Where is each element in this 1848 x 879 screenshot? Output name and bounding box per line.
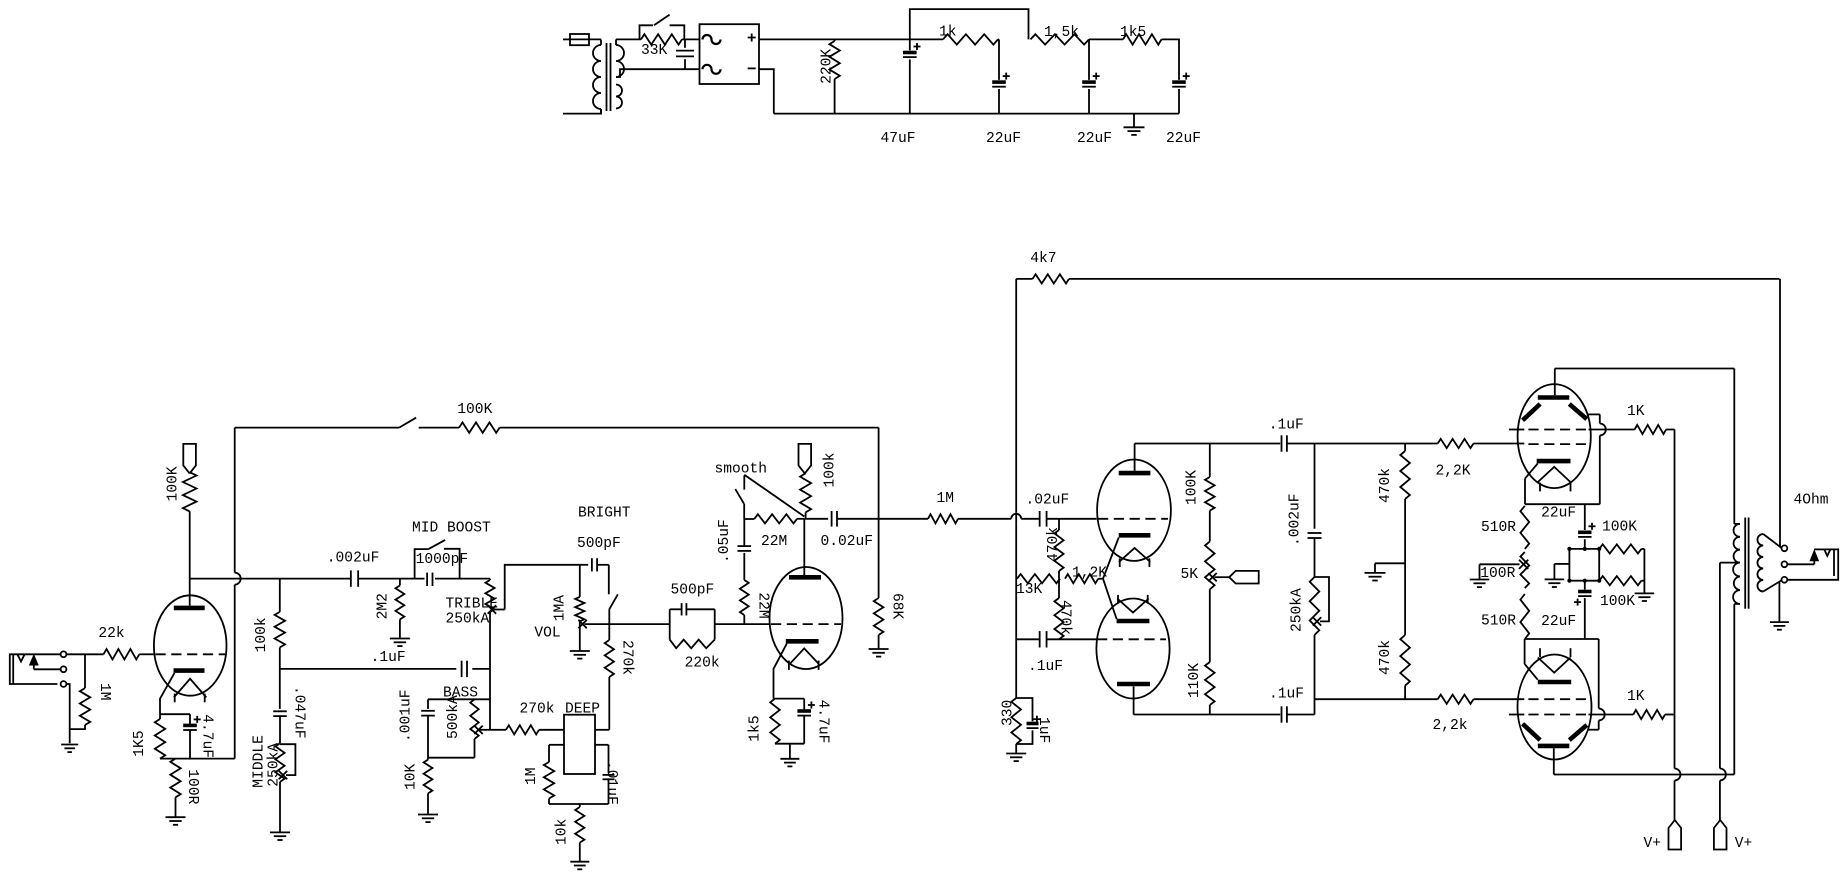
- svg-text:100K: 100K: [1185, 470, 1201, 505]
- pentode V3 heater: [1538, 467, 1571, 492]
- pentode V3 control grid: [1528, 443, 1588, 445]
- wire lower grid line: [1315, 698, 1438, 700]
- svg-text:V+: V+: [1644, 836, 1662, 852]
- svg-text:BRIGHT: BRIGHT: [578, 506, 631, 522]
- potentiometer 250kA presence: [1310, 577, 1320, 699]
- resistor 470k bias upper: [1400, 444, 1410, 564]
- wire bias ground tap: [1375, 563, 1405, 572]
- wire V3 beam plates tie: [1588, 414, 1606, 504]
- svg-text:1k5: 1k5: [1120, 25, 1146, 41]
- transformer T2 secondary: [1757, 534, 1763, 592]
- ground MIDDLE: [270, 832, 290, 840]
- wire V3 screen to 1K: [1589, 429, 1635, 431]
- resistor 470k bias lower: [1400, 563, 1410, 699]
- svg-text:MIDDLE: MIDDLE: [252, 735, 268, 788]
- label 470k lower: [1057, 600, 1073, 635]
- capacitor .047uF: [273, 669, 287, 743]
- connector B+ V1a (pentagon): [183, 444, 196, 474]
- triode V1a envelope: [154, 595, 227, 695]
- switch DEEP box: [564, 715, 595, 774]
- input jack terminal mid: [61, 666, 67, 672]
- svg-text:47uF: 47uF: [881, 131, 916, 147]
- vol wiper arrow: [578, 620, 669, 628]
- pentode V4 screen grid: [1509, 714, 1589, 716]
- wire bridge top row: [1569, 548, 1599, 550]
- resistor 2M2: [396, 579, 405, 638]
- wire PI cathode diag upper: [1103, 538, 1119, 579]
- svg-text:110K: 110K: [1187, 663, 1203, 698]
- label 68K: [889, 593, 905, 620]
- label 22M horizontal: [761, 534, 787, 550]
- svg-text:.1uF: .1uF: [1028, 659, 1063, 675]
- label MIDDLE: [252, 735, 268, 788]
- svg-text:470k: 470k: [1046, 527, 1062, 562]
- label 1K lower: [1627, 689, 1645, 705]
- pentode V3 envelope: [1518, 384, 1591, 488]
- resistor 1k: [943, 34, 998, 44]
- wire secondary top: [616, 38, 641, 40]
- resistor 13K: [1017, 574, 1060, 583]
- svg-text:2M2: 2M2: [376, 593, 392, 619]
- triode V2a cathode: [1119, 533, 1151, 538]
- svg-text:1M: 1M: [937, 491, 955, 507]
- triode V1a cathode: [160, 671, 205, 715]
- svg-text:470k: 470k: [1057, 600, 1073, 635]
- svg-text:10K: 10K: [404, 763, 420, 790]
- capacitor .01uF deep: [603, 745, 615, 804]
- transformer T1 secondary lower winding: [616, 85, 622, 109]
- capacitor .1uF tone: [462, 661, 467, 677]
- wire jack sleeve to ground: [66, 684, 70, 743]
- resistor 22k grid stopper: [104, 649, 140, 659]
- wire 330 to ground: [1015, 744, 1017, 753]
- label .002uF: [327, 551, 380, 567]
- wire PSU bottom rail: [774, 113, 1179, 115]
- label 250kA presence: [1290, 588, 1306, 632]
- label 22uF c: [1166, 131, 1201, 147]
- resistor 1k5 V1b: [770, 699, 780, 744]
- label 220k: [685, 656, 720, 672]
- ground 2M2: [390, 639, 410, 647]
- triode V1b heater: [789, 648, 819, 670]
- pentode V4 heater: [1538, 648, 1571, 673]
- svg-text:smooth: smooth: [715, 461, 768, 477]
- svg-text:V+: V+: [1735, 836, 1753, 852]
- svg-text:1M: 1M: [96, 683, 112, 701]
- resistor 10K bass: [424, 758, 433, 814]
- svg-text:270k: 270k: [619, 640, 635, 675]
- wire .1uF PI right: [1047, 638, 1097, 640]
- svg-text:22k: 22k: [98, 626, 125, 642]
- wire 33K to node: [682, 38, 700, 40]
- wire hum wiper ground: [1479, 564, 1481, 579]
- label 270k deep: [520, 702, 555, 718]
- svg-text:.02uF: .02uF: [1026, 493, 1070, 509]
- output jack tip arrow: [1787, 549, 1824, 564]
- wire V1b cathode node: [774, 698, 805, 700]
- wire feedback top run: [235, 427, 399, 429]
- resistor 1,2K: [1065, 574, 1103, 583]
- svg-text:22uF: 22uF: [1541, 506, 1576, 522]
- junction bridge top right: [1597, 547, 1601, 551]
- svg-text:100k: 100k: [822, 452, 838, 487]
- rectifier plus terminal: [748, 34, 756, 42]
- wire CT tap: [1720, 562, 1740, 564]
- capacitor 4.7uF V1a: [183, 714, 201, 758]
- resistor 100R: [170, 759, 180, 817]
- svg-text:4k7: 4k7: [1030, 251, 1056, 267]
- resistor 100k plate V1b: [800, 473, 811, 518]
- wire combo to V1b grid: [715, 623, 770, 625]
- label 33K: [641, 43, 668, 59]
- wire V2b plate rail: [1134, 714, 1281, 716]
- ground VOL: [570, 651, 590, 659]
- ground hum wiper: [1470, 580, 1490, 588]
- capacitor 22uF c: [1172, 73, 1190, 114]
- wire bridge bottom row: [1569, 580, 1599, 582]
- label 4.7uF V1a: [199, 714, 215, 758]
- label 1,5k: [1044, 25, 1079, 41]
- label 22M vertical: [755, 592, 771, 618]
- label 250kA treble: [446, 612, 490, 628]
- label 1MA: [553, 595, 569, 622]
- svg-text:4Ohm: 4Ohm: [1794, 493, 1829, 509]
- pentode V4 envelope: [1518, 655, 1592, 760]
- wire V1a cathode node: [160, 713, 190, 715]
- wire .1uF PI left: [1016, 638, 1039, 640]
- label 1k5: [1120, 25, 1146, 41]
- svg-text:VOL: VOL: [534, 626, 560, 642]
- svg-text:1K5: 1K5: [132, 730, 148, 756]
- bass wiper arrow: [474, 726, 490, 734]
- capacitor 22uF b: [1082, 73, 1100, 114]
- wire .002uF to midboost: [358, 578, 424, 580]
- label 100K feedback: [457, 402, 492, 418]
- label 100K bridge lower: [1600, 594, 1635, 610]
- svg-text:510R: 510R: [1481, 614, 1516, 630]
- label VOL: [534, 626, 560, 642]
- switch smooth blade: [744, 475, 804, 517]
- label 22uF upper: [1541, 506, 1576, 522]
- wire V2a plate rail: [1135, 443, 1281, 445]
- label 2M2: [376, 593, 392, 619]
- label 22k: [98, 626, 125, 642]
- wire bass top: [428, 698, 490, 700]
- label 330: [1001, 700, 1017, 726]
- presence wiper loop: [1313, 577, 1329, 626]
- svg-text:.047uF: .047uF: [291, 686, 307, 739]
- wire upper grid line: [1315, 443, 1438, 445]
- output jack terminal top: [1782, 545, 1788, 551]
- resistor 100K PI: [1205, 444, 1215, 542]
- svg-text:22M: 22M: [755, 592, 771, 618]
- resistor 2,2K upper: [1438, 439, 1525, 448]
- resistor 110K PI: [1205, 662, 1215, 715]
- label 13K: [1016, 582, 1043, 598]
- resistor 100K feedback: [459, 422, 500, 432]
- svg-text:4.7uF: 4.7uF: [815, 700, 831, 744]
- capacitor 1000pF: [427, 573, 432, 586]
- svg-text:1M: 1M: [524, 767, 540, 785]
- wire feedback vertical: [235, 428, 241, 759]
- triode V1b grid: [771, 623, 841, 625]
- wire deep bottom rail: [549, 803, 609, 805]
- svg-text:.1uF: .1uF: [1269, 687, 1304, 703]
- transformer T2 primary lower: [1733, 563, 1740, 775]
- wire treble wiper riser: [505, 565, 580, 610]
- wire 1M hop over PI riser: [1011, 514, 1039, 519]
- ground 10k deep: [570, 862, 589, 870]
- wire bass bottom: [428, 757, 475, 759]
- pentode V4 control grid: [1528, 698, 1588, 700]
- svg-text:22uF: 22uF: [1541, 614, 1576, 630]
- label 47uF: [881, 131, 916, 147]
- transformer T1 core: [607, 43, 611, 111]
- triode V2b grid: [1097, 638, 1166, 640]
- svg-text:510R: 510R: [1481, 520, 1516, 536]
- wire CT rail: [1720, 563, 1726, 820]
- triode V2b heater: [1117, 595, 1148, 613]
- label 22uF a: [986, 131, 1021, 147]
- pentode V3 beam plate left: [1523, 404, 1541, 420]
- svg-text:100k: 100k: [254, 617, 270, 652]
- svg-text:68K: 68K: [889, 593, 905, 620]
- svg-text:22M: 22M: [761, 534, 787, 550]
- resistor 1K screen upper: [1635, 425, 1675, 434]
- capacitor .1uF coupling upper: [1282, 435, 1315, 451]
- wire bright to 270k vert: [608, 609, 610, 640]
- svg-text:500pF: 500pF: [577, 536, 621, 552]
- svg-text:1,2K: 1,2K: [1072, 566, 1107, 582]
- resistor 100K bridge upper: [1599, 544, 1641, 553]
- resistor 100K bridge lower: [1599, 576, 1641, 585]
- input jack tip arrow: [30, 655, 61, 669]
- wire V4 screen to 1K: [1589, 714, 1634, 716]
- wire bridge right tie: [1641, 549, 1644, 593]
- pentode V4 beam plate left: [1523, 724, 1541, 740]
- svg-text:1MA: 1MA: [553, 595, 569, 622]
- ground 100R: [166, 817, 186, 825]
- connector NFB (pentagon): [1229, 571, 1259, 584]
- svg-text:4.7uF: 4.7uF: [199, 714, 215, 758]
- wire V1b cathode gnd stub: [789, 744, 791, 758]
- wire 22k to grid: [139, 653, 154, 655]
- svg-text:270k: 270k: [520, 702, 555, 718]
- wire AC input bottom: [563, 109, 601, 114]
- label 270k vert: [619, 640, 635, 675]
- label 1M input: [96, 683, 112, 701]
- node V1a plate junction to 100k divider: [279, 579, 281, 612]
- combo 500pF/220k left side: [669, 609, 671, 639]
- resistor 330: [1011, 698, 1021, 744]
- svg-text:22uF: 22uF: [986, 131, 1021, 147]
- label 100k divider: [254, 617, 270, 652]
- pentode V3 anode: [1538, 369, 1570, 398]
- wire PI cathode diag lower: [1103, 579, 1117, 619]
- ground bias: [1365, 573, 1386, 581]
- wire V1a cathode bottom rail: [160, 758, 235, 760]
- label 500pF series: [671, 583, 715, 599]
- svg-text:500kA: 500kA: [446, 695, 462, 739]
- capacitor 4.7uF V1b: [797, 699, 815, 744]
- label DEEP: [565, 702, 600, 718]
- wire jack to grid node: [66, 653, 103, 655]
- pentode V4 beam plate right: [1569, 725, 1587, 740]
- label 2,2K upper: [1436, 464, 1471, 480]
- label 1K5 V1a: [132, 730, 148, 756]
- junction bridge top left: [1567, 547, 1571, 551]
- label 4Ohm: [1794, 493, 1829, 509]
- svg-text:.1uF: .1uF: [371, 650, 406, 666]
- label 500kA: [446, 695, 462, 739]
- fuse F1: [570, 34, 601, 45]
- wire B+ rail: [759, 38, 943, 40]
- label TRIBLE: [446, 597, 499, 613]
- svg-text:250kA: 250kA: [267, 743, 283, 787]
- svg-text:100K: 100K: [166, 466, 182, 501]
- svg-text:1,5k: 1,5k: [1044, 25, 1079, 41]
- pentode V4 anode: [1538, 746, 1570, 775]
- switch MID BOOST box: [415, 540, 460, 579]
- hum wiper arrow: [1480, 560, 1529, 569]
- capacitor across rectifier input: [676, 39, 694, 69]
- label 100K PI: [1185, 470, 1201, 505]
- ground bridge: [1545, 579, 1565, 587]
- switch BRIGHT: [609, 565, 618, 609]
- triode V1a anode: [174, 579, 205, 608]
- svg-text:.002uF: .002uF: [1288, 493, 1304, 546]
- wire bridge verticals: [1569, 549, 1599, 581]
- wire deep box right: [595, 729, 609, 731]
- label .1uF coupling lower: [1269, 687, 1304, 703]
- wire 1,5k junction: [1089, 39, 1123, 80]
- label BASS: [443, 686, 478, 702]
- resistor 100K plate load V1a: [183, 472, 197, 578]
- svg-text:MID BOOST: MID BOOST: [412, 521, 491, 537]
- resistor 470k upper grid leak: [1054, 519, 1063, 579]
- wire secondary to jack bottom: [1763, 580, 1781, 591]
- svg-text:.001uF: .001uF: [399, 689, 415, 742]
- label 100K plate V1a: [166, 466, 182, 501]
- potentiometer MIDDLE 250kA: [275, 743, 284, 832]
- resistor 68K: [874, 519, 884, 649]
- input jack terminal top: [61, 651, 67, 657]
- label MID BOOST: [412, 521, 491, 537]
- label 1M deep: [524, 767, 540, 785]
- capacitor .05uF: [738, 519, 752, 551]
- potentiometer VOL 1MA: [575, 565, 584, 651]
- label 4k7: [1030, 251, 1056, 267]
- wire V4 plate rail: [1554, 774, 1735, 776]
- resistor 10k deep: [575, 804, 584, 861]
- capacitor 500pF bright: [580, 558, 609, 571]
- wire V4 beam plates tie: [1588, 639, 1605, 730]
- capacitor 22uF a: [992, 73, 1010, 114]
- label 22uF b: [1077, 131, 1112, 147]
- rectifier AC mark bottom: [703, 65, 721, 74]
- ground PSU: [1124, 114, 1145, 135]
- input jack J1: [10, 654, 61, 684]
- output jack terminal bottom: [1782, 577, 1788, 583]
- rectifier minus terminal: [748, 67, 756, 69]
- svg-text:2,2k: 2,2k: [1433, 718, 1468, 734]
- label 5K: [1181, 567, 1199, 583]
- triode V1b envelope: [770, 567, 843, 669]
- label 1K upper: [1627, 404, 1645, 420]
- potentiometer BASS 500kA: [470, 699, 478, 757]
- middle pot wiper loop: [279, 744, 296, 779]
- triode V1b cathode: [774, 641, 819, 698]
- svg-text:.01uF: .01uF: [603, 761, 619, 805]
- svg-text:22uF: 22uF: [1166, 131, 1201, 147]
- resistor 510R upper: [1520, 506, 1529, 549]
- wire .1uF tone: [280, 668, 457, 670]
- pentode V3 cathode: [1525, 461, 1571, 504]
- label .1uF tone: [371, 650, 406, 666]
- triode V2b envelope: [1096, 599, 1169, 699]
- connector B+ V1b (pentagon): [799, 444, 812, 474]
- wire jumper over 1k stage: [910, 9, 1029, 39]
- 5K wiper arrow: [1208, 573, 1229, 581]
- resistor 100R hum: [1520, 552, 1529, 588]
- svg-text:10k: 10k: [555, 818, 571, 845]
- combo 500pF/220k right side: [714, 609, 716, 639]
- capacitor 22uF upper: [1578, 504, 1595, 549]
- junction bridge top mid: [1583, 547, 1587, 551]
- capacitor .002uF: [351, 570, 358, 586]
- svg-text:220K: 220K: [820, 49, 836, 84]
- pentode V3 screen grid: [1509, 429, 1589, 431]
- capacitor .002uF hum: [1308, 533, 1322, 577]
- potentiometer 5K: [1205, 542, 1215, 663]
- svg-text:0.02uF: 0.02uF: [821, 534, 874, 550]
- svg-text:330: 330: [1001, 700, 1017, 726]
- ground 10K: [418, 815, 438, 823]
- label 2,2k lower: [1433, 718, 1468, 734]
- ground 68K: [869, 649, 889, 657]
- label 100R hum: [1480, 566, 1515, 582]
- transformer T1 secondary upper winding: [616, 39, 700, 77]
- label 1000pF: [416, 552, 469, 568]
- potentiometer TREBLE 250kA: [485, 579, 494, 730]
- resistor 270k vert: [605, 640, 614, 730]
- wire PI riser: [1015, 279, 1017, 698]
- label .01uF: [603, 761, 619, 805]
- label 1uF: [1035, 717, 1051, 743]
- resistor 4k7 feedback: [1016, 274, 1779, 283]
- label .05uF: [717, 519, 733, 563]
- capacitor 0.02uF coupling: [804, 511, 878, 527]
- capacitor .001uF: [421, 699, 435, 757]
- triode V2b cathode: [1117, 619, 1150, 624]
- label 110K PI: [1187, 663, 1203, 698]
- label 100K bridge upper: [1602, 520, 1637, 536]
- wire V1a plate node: [190, 578, 351, 580]
- wire rectifier minus to ground rail: [759, 69, 774, 113]
- label .02uF PI: [1026, 493, 1070, 509]
- resistor 22M vertical: [740, 553, 749, 624]
- pentode V4 cathode: [1525, 639, 1572, 682]
- rectifier bridge BR1: [700, 24, 760, 84]
- label V+ left: [1644, 836, 1662, 852]
- wire AC input top: [563, 38, 570, 40]
- capacitor 1uF bypass: [1016, 698, 1040, 744]
- label 500pF bright: [577, 536, 621, 552]
- resistor 2,2k lower: [1438, 695, 1525, 704]
- triode V2a anode: [1119, 444, 1151, 474]
- wire secondary to jack top: [1763, 534, 1781, 548]
- label .002uF hum: [1288, 493, 1304, 546]
